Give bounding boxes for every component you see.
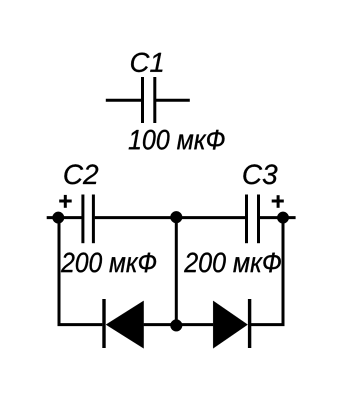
value label: 200 мкФ (C3) [184, 253, 281, 273]
node: center top junction [170, 211, 182, 223]
wire: bottom right segment [250, 323, 285, 326]
wire: D1 anode to center bottom node [144, 323, 177, 326]
wire: center rail (vertical) [175, 217, 178, 325]
capacitor C1 [143, 77, 155, 123]
polarity mark + for C2 [59, 195, 71, 208]
label C2 [64, 164, 98, 184]
capacitor C2 [83, 195, 94, 244]
wire: top rail right segment [260, 216, 296, 219]
value label: 200 мкФ (C2) [61, 253, 156, 273]
diode D1 (cathode bar on left) [104, 299, 144, 348]
wire: top rail left segment [47, 216, 82, 219]
wire: C1 right lead [156, 99, 190, 102]
node: right junction [277, 212, 289, 224]
label C3 [243, 164, 277, 184]
diode D2 (cathode bar on right) [213, 299, 249, 348]
wire: C1 left lead [106, 99, 141, 102]
capacitor C3 [247, 195, 259, 244]
node: left junction [53, 212, 65, 224]
wire: center bottom node to D2 anode [176, 323, 213, 326]
node: center bottom junction [170, 320, 182, 332]
wire: bottom left segment [58, 323, 103, 326]
polarity mark + for C3 [272, 195, 284, 208]
wire: left rail (vertical) [58, 218, 61, 325]
label C1 [131, 53, 162, 73]
value label: 100 мкФ (C1) [129, 130, 225, 150]
wire: right rail (vertical) [282, 218, 285, 325]
wire: top rail middle segment [95, 216, 246, 219]
